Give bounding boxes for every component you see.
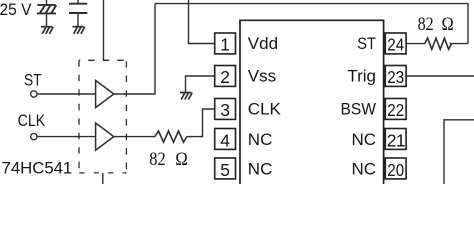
capacitor C2	[69, 4, 87, 13]
svg-text:CLK: CLK	[248, 100, 282, 119]
svg-text:ST: ST	[24, 70, 42, 89]
svg-text:25 V: 25 V	[0, 0, 32, 19]
74HC541 dashed enclosure box	[79, 60, 126, 173]
pin 4 box	[215, 129, 236, 150]
ground (Vss)	[180, 93, 192, 100]
wire resistor to top rail corner	[450, 43, 468, 45]
wire supply feed into 74HC541 dashed box	[103, 0, 105, 60]
svg-text:1: 1	[396, 130, 406, 150]
wire pin 23 Trig to right edge	[406, 75, 474, 77]
svg-text:Trig: Trig	[347, 66, 376, 85]
svg-text:NC: NC	[248, 159, 273, 178]
svg-text:NC: NC	[351, 159, 376, 178]
pin 2 box	[215, 66, 236, 87]
capacitor C1 (hatched electrolytic) top lead wire	[46, 0, 48, 5]
pin 23 box	[385, 66, 406, 87]
svg-text:Vss: Vss	[248, 66, 276, 85]
svg-text:22: 22	[387, 100, 404, 120]
IC U2 body	[240, 20, 384, 184]
wire ST buffer output to top rail	[114, 4, 155, 94]
buffer U1a (74HC541, ST)	[96, 80, 114, 107]
svg-text:5: 5	[220, 160, 230, 180]
svg-text:1: 1	[220, 34, 230, 54]
buffer U1b (74HC541, CLK)	[96, 123, 114, 150]
pin 24 box	[385, 33, 406, 54]
svg-text:NC: NC	[351, 130, 376, 149]
resistor 82 ohm (left, CLK line)	[155, 131, 187, 142]
svg-text:CLK: CLK	[18, 111, 46, 130]
wire C2 to ground	[77, 13, 79, 27]
svg-text:NC: NC	[248, 130, 273, 149]
svg-text:1: 1	[63, 158, 72, 177]
pin 3 box	[215, 99, 236, 120]
capacitor C2 top lead wire	[77, 0, 79, 4]
svg-text:82: 82	[418, 14, 434, 35]
svg-text:4: 4	[220, 130, 230, 150]
wire ground stub below dashed box	[102, 173, 104, 184]
capacitor C1 (hatched plate symbol)	[37, 5, 56, 14]
svg-text:23: 23	[387, 67, 404, 87]
terminal circle ST input	[31, 91, 37, 97]
svg-text:2: 2	[220, 67, 230, 87]
wire CLK buffer output to resistor	[114, 136, 155, 138]
pin 22 box	[385, 99, 406, 120]
svg-text:3: 3	[220, 100, 230, 120]
svg-text:ST: ST	[357, 34, 376, 53]
wire ST input to buffer	[37, 93, 96, 95]
pin 20 box	[385, 158, 406, 179]
svg-text:BSW: BSW	[341, 100, 377, 119]
svg-text:82: 82	[149, 149, 165, 170]
svg-text:Ω: Ω	[442, 14, 454, 35]
svg-text:24: 24	[387, 34, 404, 54]
wire pin 2 Vss to ground	[186, 76, 215, 92]
svg-text:20: 20	[387, 160, 404, 180]
ground (below C2)	[73, 27, 85, 34]
ground (below C1)	[41, 27, 53, 34]
pin 5 box	[215, 158, 236, 179]
wire C1 to ground	[46, 13, 48, 26]
svg-text:74HC54: 74HC54	[2, 158, 64, 177]
svg-text:Ω: Ω	[175, 149, 187, 170]
wire top rail to right resistor	[155, 4, 468, 44]
wire Vdd rail down to pin 1	[189, 0, 215, 44]
pin 1 box	[215, 33, 236, 54]
svg-text:Vdd: Vdd	[248, 34, 278, 53]
wire resistor to pin 3	[187, 109, 215, 137]
terminal circle CLK input	[31, 133, 37, 139]
resistor 82 ohm (right, ST line)	[425, 38, 452, 49]
wire CLK input to buffer	[37, 136, 96, 138]
wire pin 24 to resistor	[406, 43, 425, 45]
wire bottom-right corner net	[444, 120, 474, 184]
pin 21 box	[385, 129, 406, 150]
